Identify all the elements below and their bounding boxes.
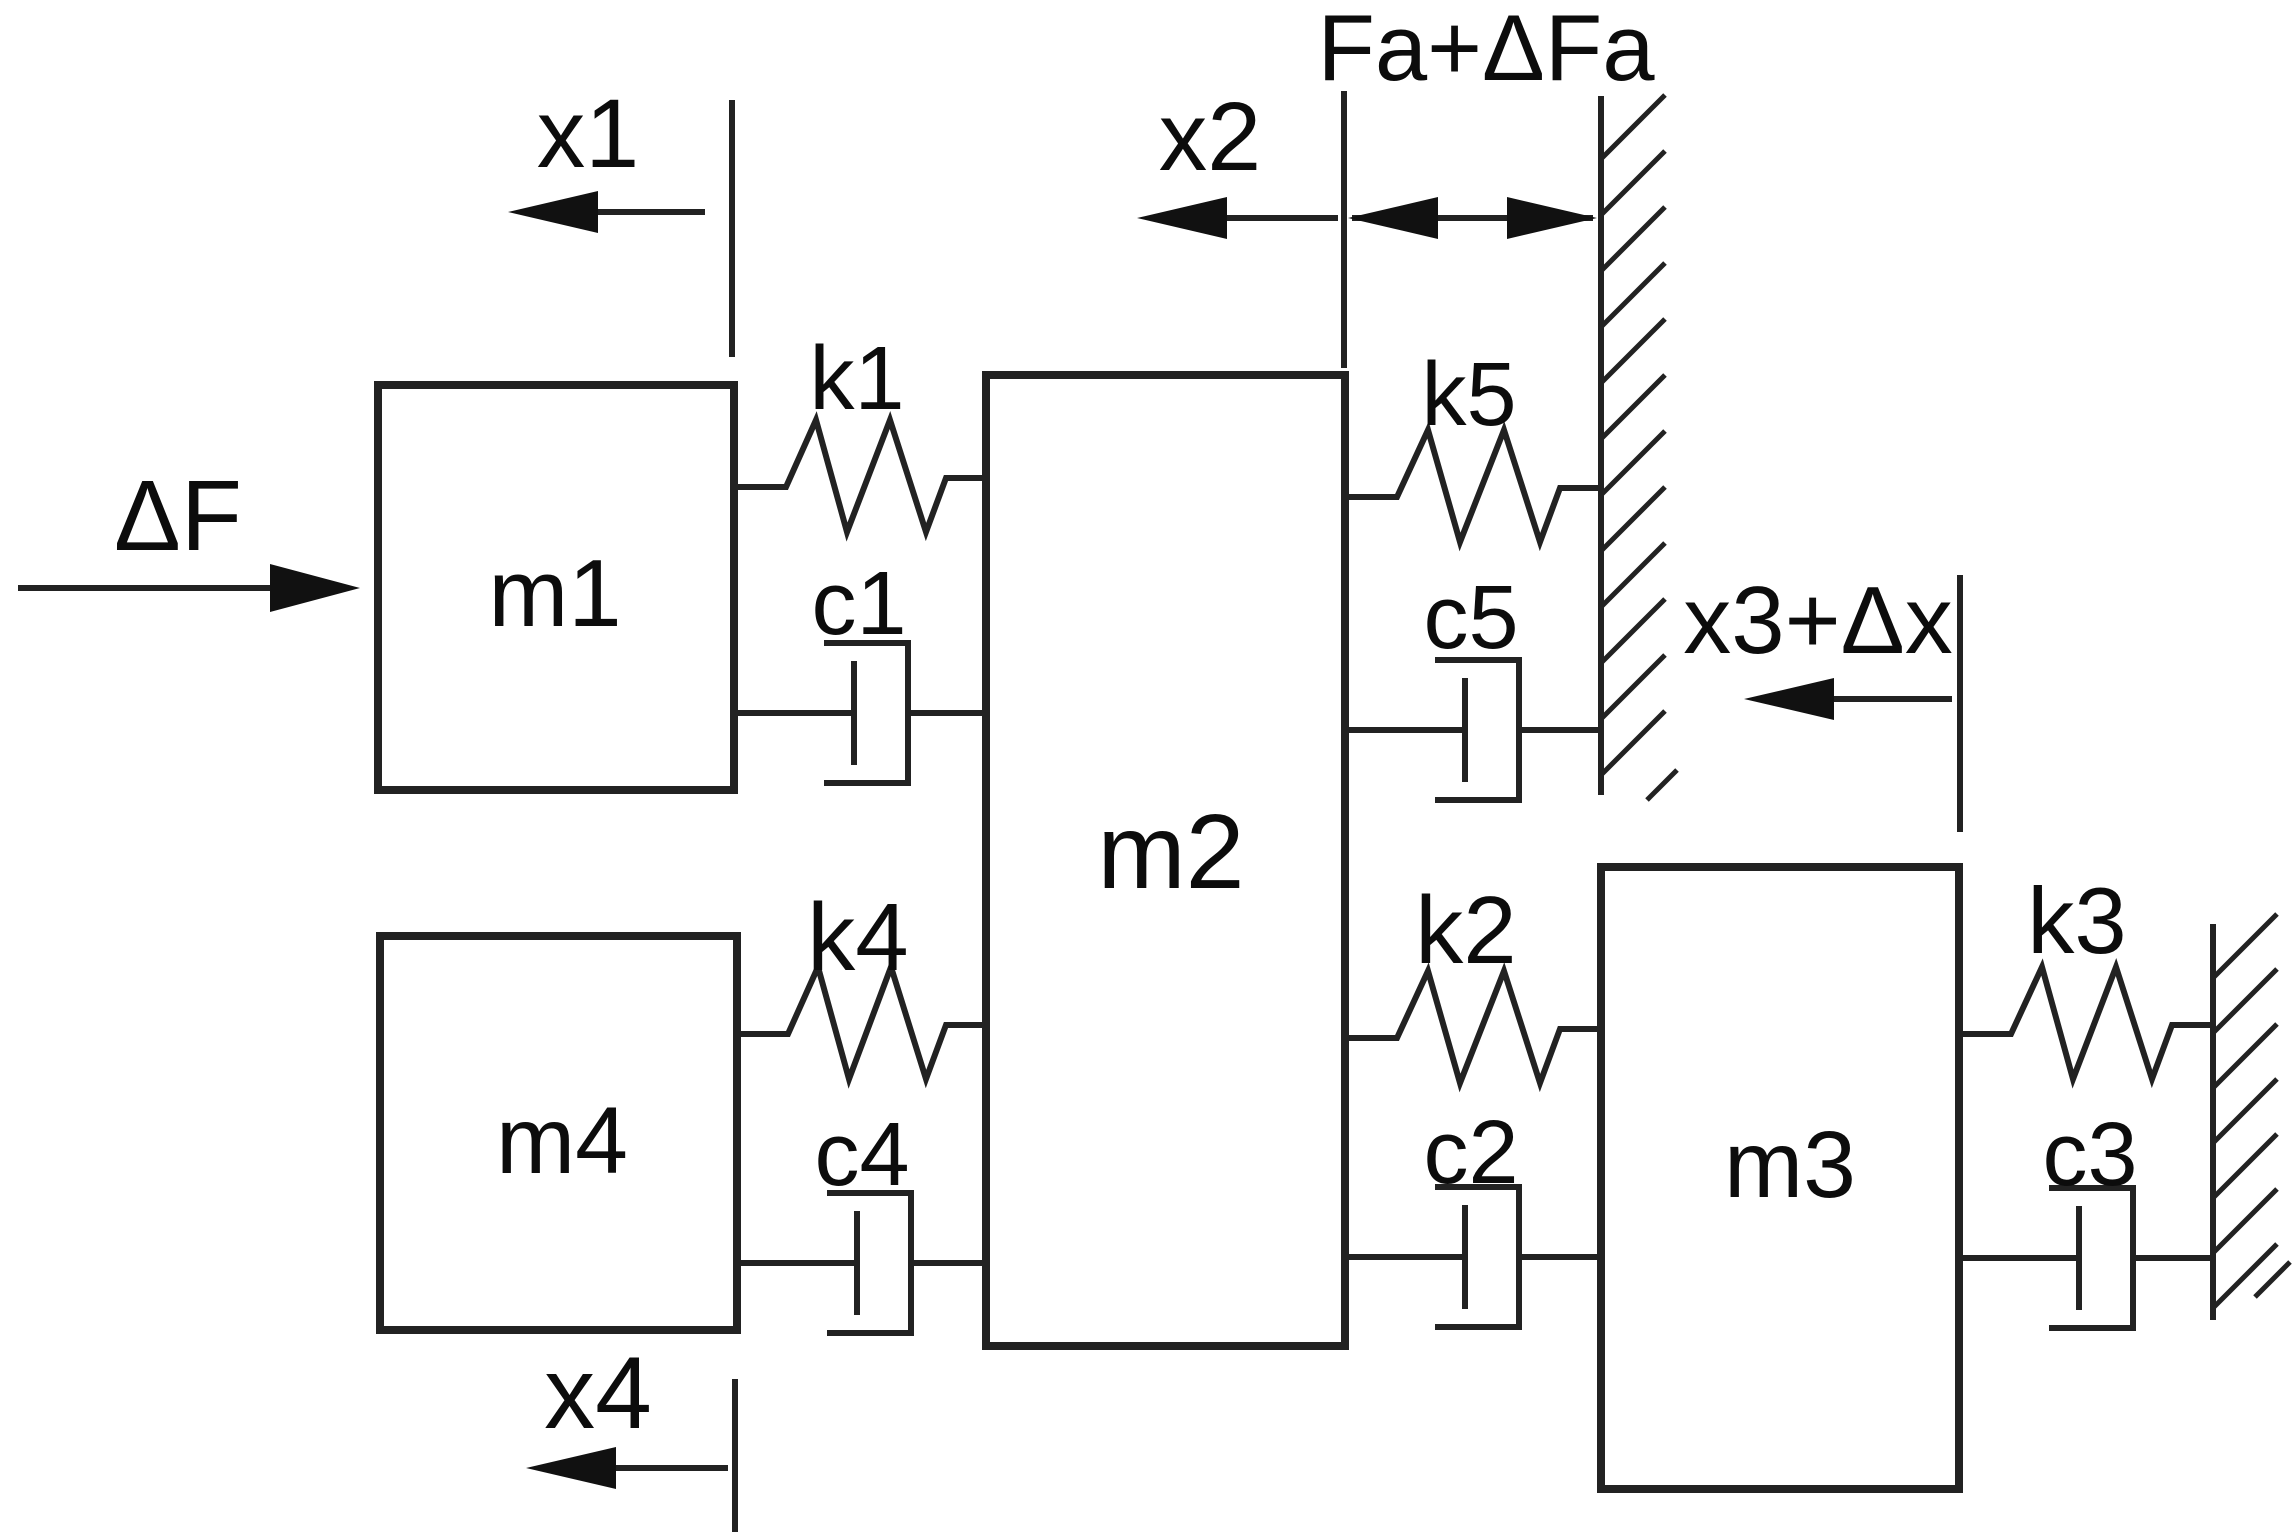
mass m1 bbox=[378, 385, 734, 790]
svg-text:k1: k1 bbox=[809, 329, 904, 429]
spring k4 bbox=[737, 884, 986, 1079]
svg-text:x2: x2 bbox=[1159, 82, 1261, 191]
svg-text:ΔF: ΔF bbox=[114, 460, 242, 572]
svg-text:m2: m2 bbox=[1097, 793, 1244, 911]
svg-text:k4: k4 bbox=[807, 884, 908, 991]
svg-text:c5: c5 bbox=[1423, 568, 1518, 668]
damper c1 bbox=[734, 554, 988, 783]
svg-text:x1: x1 bbox=[537, 79, 639, 188]
svg-text:c2: c2 bbox=[1423, 1103, 1518, 1203]
svg-text:Fa+ΔFa: Fa+ΔFa bbox=[1317, 0, 1655, 100]
svg-text:m4: m4 bbox=[496, 1088, 628, 1194]
displacement x1 (dimension line and arrow) bbox=[508, 79, 732, 357]
damper c4 bbox=[737, 1105, 986, 1333]
mass m2 bbox=[986, 375, 1345, 1346]
svg-text:c4: c4 bbox=[814, 1105, 909, 1205]
damper c5 bbox=[1345, 568, 1601, 800]
svg-text:k5: k5 bbox=[1421, 345, 1516, 445]
spring k5 bbox=[1345, 345, 1601, 542]
mass m3 bbox=[1601, 867, 1959, 1489]
force Fa+ΔFa (label and double arrow between dimension line and wall) bbox=[1317, 0, 1655, 239]
wall B (fixed support right of m3) bbox=[2213, 914, 2290, 1320]
damper c3 bbox=[1959, 1105, 2213, 1328]
displacement x2 (dimension line and arrow) bbox=[1137, 82, 1344, 368]
damper c2 bbox=[1345, 1103, 1601, 1327]
svg-text:m3: m3 bbox=[1724, 1112, 1856, 1218]
spring k2 bbox=[1345, 877, 1601, 1083]
displacement x3+Δx (dimension line and arrow) bbox=[1683, 567, 1960, 832]
svg-text:k3: k3 bbox=[2027, 868, 2126, 973]
svg-text:m1: m1 bbox=[488, 540, 621, 647]
svg-text:c3: c3 bbox=[2042, 1105, 2137, 1205]
spring k3 bbox=[1959, 868, 2213, 1079]
svg-text:x3+Δx: x3+Δx bbox=[1683, 567, 1953, 674]
wall A (fixed support right of m2) bbox=[1601, 95, 1677, 800]
svg-text:x4: x4 bbox=[544, 1336, 652, 1450]
mass m4 bbox=[380, 936, 737, 1330]
svg-text:k2: k2 bbox=[1415, 877, 1516, 984]
force arrow ΔF bbox=[18, 460, 360, 612]
svg-text:c1: c1 bbox=[811, 554, 906, 654]
displacement x4 (dimension line and arrow) bbox=[526, 1336, 735, 1532]
spring k1 bbox=[734, 329, 986, 532]
